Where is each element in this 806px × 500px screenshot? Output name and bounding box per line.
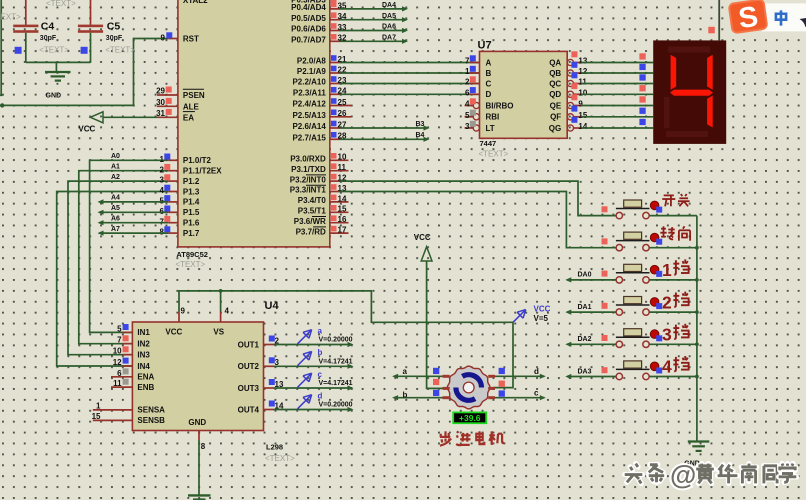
button KEY1 blue square <box>656 207 662 213</box>
svg-text:XTAL2: XTAL2 <box>183 0 208 5</box>
junction node on VCC rail <box>0 103 4 107</box>
svg-text:A0: A0 <box>111 153 120 160</box>
svg-text:P0.7/AD7: P0.7/AD7 <box>291 36 326 45</box>
wire U7 QG to display <box>581 119 653 128</box>
svg-text:P0.4/AD4: P0.4/AD4 <box>291 3 326 12</box>
wire KEY1 to bus <box>649 215 697 217</box>
svg-text:+39.6: +39.6 <box>459 413 481 423</box>
svg-text:26: 26 <box>338 109 347 118</box>
push button KEY4 <box>616 297 650 316</box>
label KEY3 1-dang <box>662 259 690 280</box>
button KEY2 blue square <box>656 239 662 245</box>
svg-text:@: @ <box>670 460 696 490</box>
wire KEY2 to bus <box>649 247 697 249</box>
wire display common to top edge <box>718 0 720 40</box>
U1 pin P3.5/T1 (15) <box>298 205 349 216</box>
U1 pin PSEN (29) <box>156 87 205 101</box>
push button KEY5 <box>616 329 650 348</box>
U1 pin P2.7/A15 (28) <box>292 132 347 143</box>
svg-text:15: 15 <box>92 412 101 421</box>
wire U4 GND to ground <box>198 440 200 495</box>
svg-text:QD: QD <box>549 90 561 99</box>
svg-text:<TEXT>: <TEXT> <box>265 454 295 463</box>
button KEY3 blue square <box>656 271 662 277</box>
svg-text:QA: QA <box>549 58 561 67</box>
junction on button bus <box>695 246 699 250</box>
svg-text:PSEN: PSEN <box>183 91 205 100</box>
svg-text:P2.0/A8: P2.0/A8 <box>297 57 326 66</box>
U1 pin P3.1/TXD (11) <box>291 163 348 174</box>
svg-text:2: 2 <box>160 165 165 174</box>
svg-text:IN4: IN4 <box>137 362 150 371</box>
svg-text:a: a <box>318 326 323 335</box>
wire DA0 to KEY3 <box>565 272 616 283</box>
svg-text:30pF: 30pF <box>40 35 57 42</box>
svg-text:OUT1: OUT1 <box>238 340 260 349</box>
U1 pin P2.2/A10 (23) <box>292 76 347 87</box>
push button KEY1 <box>616 200 650 219</box>
wire P2.3 to U7 <box>339 93 480 95</box>
svg-text:V=0.20000: V=0.20000 <box>319 402 353 409</box>
svg-text:15: 15 <box>338 205 347 214</box>
svg-text:17: 17 <box>338 226 347 235</box>
U1 pin P1.5 (6) <box>160 206 200 218</box>
svg-text:DA0: DA0 <box>578 272 592 279</box>
U7 pin A (7) <box>465 55 491 67</box>
svg-text:P0.5/AD5: P0.5/AD5 <box>291 14 326 23</box>
svg-text:11: 11 <box>578 78 587 87</box>
button KEY4 state dot <box>650 298 659 307</box>
button KEY6 red square <box>602 367 608 373</box>
svg-text:<TEXT>: <TEXT> <box>46 0 76 8</box>
svg-text:DA1: DA1 <box>578 304 592 311</box>
stepper motor MOT body <box>443 366 496 409</box>
svg-text:<TEXT>: <TEXT> <box>175 260 205 269</box>
voltage probe d <box>298 391 353 409</box>
wire A6 stub from P1.6 <box>98 216 169 226</box>
U7 pin QC (11) <box>549 72 587 88</box>
svg-text:ENB: ENB <box>137 383 154 392</box>
svg-text:C5: C5 <box>107 20 121 32</box>
U1 pin P0.4/AD4 (35) <box>291 1 347 12</box>
svg-text:P1.5: P1.5 <box>183 208 200 217</box>
label stepper motor (bu-jin-dian-ji) <box>440 431 505 445</box>
svg-text:U4: U4 <box>265 300 280 312</box>
U1 pin P3.3/INT1 (13) <box>290 184 347 195</box>
junction on button bus <box>695 342 699 346</box>
svg-text:SENSA: SENSA <box>137 406 165 415</box>
svg-text:IN1: IN1 <box>137 328 150 337</box>
svg-text:V=0.20000: V=0.20000 <box>319 337 353 344</box>
svg-text:5: 5 <box>117 324 122 333</box>
U4 pin OUT3 (13) <box>238 379 284 393</box>
svg-text:A6: A6 <box>111 216 120 223</box>
wire U7 QB to display <box>581 64 653 73</box>
voltage probe a <box>298 326 353 344</box>
svg-text:3: 3 <box>662 325 672 345</box>
svg-text:VCC: VCC <box>414 233 431 242</box>
wire A0 net P1.0 to U4 IN1 <box>90 160 169 332</box>
wire A4 stub from P1.4 <box>98 195 169 205</box>
svg-text:<TEXT>: <TEXT> <box>0 12 21 21</box>
svg-text:QG: QG <box>549 124 561 133</box>
svg-text:OUT3: OUT3 <box>238 384 260 393</box>
svg-text:VCC: VCC <box>78 125 95 134</box>
wire U7 QA to display <box>581 53 653 62</box>
svg-text:C: C <box>486 79 492 88</box>
button KEY5 red square <box>602 335 608 341</box>
svg-text:P2.1/A9: P2.1/A9 <box>297 67 326 76</box>
svg-text:D: D <box>486 90 492 99</box>
svg-text:P3.2/INT0: P3.2/INT0 <box>290 175 327 184</box>
wire motor phase c <box>489 388 546 400</box>
U1 pin RST (9) <box>161 32 199 43</box>
ground symbol bottom center <box>188 495 211 499</box>
button KEY2 red square <box>602 238 608 244</box>
svg-text:14: 14 <box>338 194 347 203</box>
svg-text:DA4: DA4 <box>382 2 396 9</box>
svg-text:GND: GND <box>46 92 62 99</box>
U7 pin BI/RBO (4) <box>465 98 514 110</box>
svg-text:6: 6 <box>117 369 122 378</box>
wire B3 from P2.6 <box>339 121 430 131</box>
U1 pin P1.2 (3) <box>160 174 200 186</box>
svg-text:EA: EA <box>183 114 194 123</box>
U4 pin IN1 (5) <box>117 324 150 337</box>
junction on button bus <box>695 278 699 282</box>
svg-text:3: 3 <box>160 176 165 185</box>
wire VCC rail to U4 and VCC probe <box>179 291 513 388</box>
svg-text:B: B <box>486 69 492 78</box>
label KEY4 2-dang <box>662 292 690 313</box>
wire capacitor bottoms to ground <box>26 62 91 71</box>
svg-text:OUT4: OUT4 <box>238 405 260 414</box>
button KEY1 state dot <box>650 201 659 210</box>
svg-text:P1.1/T2EX: P1.1/T2EX <box>183 167 222 176</box>
svg-text:VCC: VCC <box>534 305 551 314</box>
U7 pin QB (12) <box>549 62 588 78</box>
U1 pin P2.6/A14 (27) <box>292 120 347 131</box>
svg-text:P1.7: P1.7 <box>183 229 200 238</box>
svg-text:c: c <box>534 388 539 397</box>
svg-text:SENSB: SENSB <box>137 416 165 425</box>
svg-text:RST: RST <box>183 35 199 44</box>
wire U7 QF to display <box>581 108 653 117</box>
power terminal VCC above motor <box>414 233 432 261</box>
wire P3.2 to button KEY1 <box>339 181 616 216</box>
button KEY6 state dot <box>650 362 659 371</box>
svg-text:9: 9 <box>181 307 186 316</box>
U1 pin P1.6 (7) <box>160 216 200 228</box>
button KEY3 red square <box>602 271 608 277</box>
wire DA3 to KEY6 <box>565 368 616 379</box>
U1 pin P1.1/T2EX (2) <box>160 164 223 176</box>
U1 pin 36 sliver at top <box>331 0 337 2</box>
svg-text:1: 1 <box>662 260 672 280</box>
svg-text:V=5: V=5 <box>534 314 549 323</box>
svg-text:c: c <box>318 370 323 379</box>
push button KEY3 <box>616 264 650 283</box>
button KEY4 red square <box>602 303 608 309</box>
svg-text:P3.3/INT1: P3.3/INT1 <box>290 186 327 195</box>
svg-text:IN2: IN2 <box>137 340 150 349</box>
svg-text:11: 11 <box>113 379 122 388</box>
U4 pin IN2 (7) <box>117 335 150 348</box>
svg-text:P1.0/T2: P1.0/T2 <box>183 156 212 165</box>
junction VS branch <box>219 289 223 293</box>
svg-text:A5: A5 <box>111 205 120 212</box>
wire KEY3 to bus <box>649 279 697 281</box>
wire KEY5 to bus <box>649 343 697 345</box>
wire A2 net P1.2 to U4 IN3 <box>68 181 168 355</box>
svg-text:U7: U7 <box>478 40 492 52</box>
ground symbol near C4/C5 <box>45 72 71 99</box>
svg-text:13: 13 <box>578 57 587 66</box>
svg-text:LT: LT <box>486 124 495 133</box>
svg-text:7: 7 <box>160 217 165 226</box>
watermark logo: partial glyph at edge <box>800 18 806 27</box>
svg-text:12: 12 <box>113 358 122 367</box>
svg-text:30: 30 <box>156 98 165 107</box>
capacitor C5 30pF <box>78 0 135 62</box>
svg-text:OUT2: OUT2 <box>238 362 260 371</box>
junction on button bus <box>695 310 699 314</box>
svg-text:RBI: RBI <box>486 113 500 122</box>
svg-text:V=4.17241: V=4.17241 <box>319 380 353 387</box>
svg-text:2: 2 <box>662 292 672 312</box>
BCD decoder U7 7447 body <box>478 40 568 159</box>
wire A5 stub from P1.5 <box>98 205 169 215</box>
svg-text:2: 2 <box>465 78 470 87</box>
U7 pin B (1) <box>465 66 491 78</box>
U7 pin RBI (5) <box>465 110 500 122</box>
svg-text:B3: B3 <box>416 121 425 128</box>
label KEY6 4-dang <box>662 356 690 377</box>
svg-text:7: 7 <box>465 57 470 66</box>
svg-text:DA6: DA6 <box>382 24 396 31</box>
U1 pin P0.5/AD5 (34) <box>291 12 347 23</box>
svg-text:P1.2: P1.2 <box>183 177 200 186</box>
wire U7 QD to display <box>581 85 653 94</box>
wire VS branch <box>220 291 222 312</box>
svg-text:P0.6/AD6: P0.6/AD6 <box>291 25 326 34</box>
U1 pin P1.7 (8) <box>160 226 200 238</box>
capacitor C4 30pF <box>13 0 69 62</box>
U4 pin ENA (6) <box>111 368 155 381</box>
U1 pin P2.0/A8 (21) <box>297 55 347 66</box>
svg-text:<TEXT>: <TEXT> <box>479 149 509 158</box>
U1 pin P3.4/T0 (14) <box>298 194 349 205</box>
svg-text:ENA: ENA <box>137 373 154 382</box>
svg-text:P1.3: P1.3 <box>183 187 200 196</box>
svg-text:VS: VS <box>213 328 224 337</box>
U1 pin P1.0/T2 (1) <box>160 154 212 166</box>
U7 pin QE (9) <box>550 94 584 110</box>
svg-text:5: 5 <box>160 197 165 206</box>
svg-text:b: b <box>403 390 408 399</box>
svg-text:BI/RBO: BI/RBO <box>486 101 514 110</box>
U7 pin QF (15) <box>550 106 588 122</box>
wire P2.2 to U7 <box>339 83 480 85</box>
svg-text:8: 8 <box>201 442 206 451</box>
U4 pin VCC (9) <box>179 307 186 323</box>
svg-text:14: 14 <box>578 122 587 131</box>
U4 pin GND (8) <box>199 431 206 452</box>
svg-text:P2.2/A10: P2.2/A10 <box>292 78 326 87</box>
U1 pin P2.4/A12 (25) <box>292 98 351 109</box>
display lit segments (digit 4) <box>670 55 713 128</box>
voltage probe c <box>298 370 353 388</box>
wire DA2 to KEY5 <box>565 336 616 347</box>
svg-text:25: 25 <box>338 98 347 107</box>
display unlit segments <box>664 47 710 138</box>
wire OUT1 <box>273 342 354 347</box>
svg-text:P3.1/TXD: P3.1/TXD <box>291 165 326 174</box>
motor probe squares left <box>433 368 439 396</box>
svg-text:1: 1 <box>160 155 165 164</box>
svg-text:A7: A7 <box>111 226 120 233</box>
motor probe squares right <box>499 368 505 397</box>
wire button bus to ground <box>696 216 698 442</box>
wire KEY6 to bus <box>649 376 697 378</box>
U4 pin OUT2 (3) <box>238 357 280 371</box>
ground symbol bottom right <box>684 442 709 468</box>
wire DA4 from P0.4 <box>339 2 408 11</box>
svg-text:A: A <box>486 58 492 67</box>
svg-text:A1: A1 <box>111 164 120 171</box>
svg-text:30pF: 30pF <box>106 35 123 42</box>
label KEY2 zhuan-xiang <box>660 226 690 240</box>
svg-text:11: 11 <box>338 163 347 172</box>
svg-text:A2: A2 <box>111 174 120 181</box>
svg-text:A4: A4 <box>111 195 120 202</box>
wire left edge vertical <box>0 0 3 95</box>
U1 pin P3.2/INT0 (12) <box>290 174 347 185</box>
U1 pin P2.3/A11 (24) <box>293 87 347 98</box>
svg-text:8: 8 <box>160 228 165 237</box>
voltage probe b <box>298 348 353 366</box>
button KEY4 blue square <box>656 303 662 309</box>
svg-text:DA5: DA5 <box>382 13 396 20</box>
button KEY2 state dot <box>650 233 659 242</box>
svg-text:10: 10 <box>578 88 587 97</box>
svg-text:4: 4 <box>465 100 470 109</box>
wire OUT3 <box>273 385 354 390</box>
svg-text:15: 15 <box>578 111 587 120</box>
svg-text:d: d <box>318 391 323 400</box>
U7 pin QG (14) <box>549 117 588 133</box>
svg-text:7: 7 <box>117 336 122 345</box>
svg-text:b: b <box>318 348 323 357</box>
wire U7 QE to display <box>581 96 653 105</box>
svg-text:4: 4 <box>160 186 165 195</box>
svg-text:P2.5/A13: P2.5/A13 <box>292 111 326 120</box>
svg-text:V=4.17241: V=4.17241 <box>319 358 353 365</box>
wire RST to VCC rail <box>0 39 168 106</box>
push button KEY6 <box>616 361 650 380</box>
wire P2.0 to U7 <box>339 62 480 64</box>
button KEY1 red square <box>602 206 608 212</box>
button KEY6 blue square <box>656 368 662 374</box>
wire DA6 from P0.6 <box>339 24 408 33</box>
svg-text:a: a <box>403 367 408 376</box>
U4 pin IN3 (10) <box>113 346 151 359</box>
U4 pin ENB (11) <box>111 379 155 392</box>
svg-text:QF: QF <box>550 113 561 122</box>
svg-text:12: 12 <box>578 67 587 76</box>
svg-text:29: 29 <box>156 87 165 96</box>
label KEY5 3-dang <box>662 324 690 345</box>
wire KEY4 to bus <box>649 311 697 313</box>
U4 pin VS (4) <box>221 307 230 323</box>
U7 pin D (6) <box>465 87 491 99</box>
U4 pin SENSB (15) <box>92 412 166 425</box>
power terminal VCC at EA pin <box>78 112 157 134</box>
U1 pin P0.7/AD7 (32) <box>291 34 347 45</box>
svg-text:10: 10 <box>338 153 347 162</box>
junction on button bus <box>695 375 699 379</box>
U4 pin SENSA (1) <box>93 402 165 415</box>
watermark logo: blue zhong <box>776 10 786 25</box>
U1 pin P1.3 (4) <box>160 185 200 197</box>
wire motor phase b <box>392 390 448 400</box>
svg-text:6: 6 <box>160 207 165 216</box>
svg-text:P3.7/RD: P3.7/RD <box>296 227 326 236</box>
svg-text:QB: QB <box>549 69 561 78</box>
svg-text:P3.5/T1: P3.5/T1 <box>298 207 327 216</box>
svg-text:IN3: IN3 <box>137 351 150 360</box>
svg-text:4: 4 <box>662 357 672 377</box>
svg-text:GND: GND <box>188 418 206 427</box>
svg-text:P2.6/A14: P2.6/A14 <box>292 122 326 131</box>
wire P3.3 to button KEY2 <box>339 192 616 248</box>
svg-text:9: 9 <box>161 34 166 43</box>
svg-text:L298: L298 <box>266 443 283 452</box>
svg-text:ALE: ALE <box>183 103 200 112</box>
U7 pin C (2) <box>465 76 491 88</box>
U1 pin ALE (30) <box>156 98 199 112</box>
svg-text:P2.4/A12: P2.4/A12 <box>292 100 326 109</box>
svg-text:DA3: DA3 <box>578 368 592 375</box>
svg-text:d: d <box>534 367 539 376</box>
micro-controller U1 AT89C52 body <box>175 0 329 269</box>
voltage probe VCC V=5 <box>513 305 551 324</box>
svg-text:P3.6/WR: P3.6/WR <box>294 217 326 226</box>
wire DA1 to KEY4 <box>565 304 616 315</box>
wire A3 net P1.3 to U4 IN4 <box>57 192 169 367</box>
driver U4 L298 body <box>132 300 295 463</box>
U4 pin OUT4 (14) <box>238 401 284 415</box>
U1 pin P2.5/A13 (26) <box>292 109 351 120</box>
U1 pin EA (31) <box>156 109 195 123</box>
svg-text:P1.4: P1.4 <box>183 198 200 207</box>
U1 pin P3.0/RXD (10) <box>290 153 348 164</box>
svg-text:C4: C4 <box>41 20 55 32</box>
U1 pin P0.6/AD6 (33) <box>291 23 347 34</box>
wire VCC terminal to motor common <box>427 261 443 388</box>
U1 pin P2.1/A9 (22) <box>297 65 347 76</box>
wire A7 stub from P1.7 <box>98 226 169 236</box>
svg-text:3: 3 <box>465 122 470 131</box>
wire DA7 from P0.7 <box>339 35 408 44</box>
wire P2.1 to U7 <box>339 72 480 74</box>
svg-text:B4: B4 <box>416 132 425 139</box>
display common pin square <box>708 27 715 34</box>
svg-text:6: 6 <box>465 89 470 98</box>
U7 pin LT (3) <box>465 121 495 133</box>
svg-text:9: 9 <box>578 100 583 109</box>
button KEY3 state dot <box>650 265 659 274</box>
